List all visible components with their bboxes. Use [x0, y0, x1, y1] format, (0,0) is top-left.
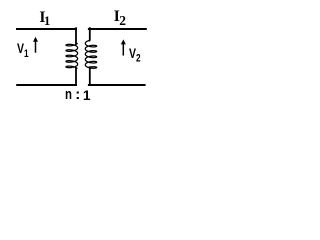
- label I2: [114, 9, 126, 27]
- wire left-loop bottom: [17, 84, 76, 86]
- wire right-loop left vertical top: [88, 28, 90, 40]
- inductor L1 (primary winding): [66, 44, 78, 69]
- wire right-loop bottom: [89, 84, 145, 86]
- wire right-loop top: [89, 28, 146, 30]
- wire right-loop left vertical bottom: [89, 67, 91, 85]
- arrow V1 polarity (up): [33, 37, 38, 52]
- wire left-loop right vertical top: [75, 28, 77, 43]
- label I1: [39, 10, 50, 27]
- label turns-ratio colon: [75, 87, 80, 102]
- label V1: [17, 41, 29, 60]
- label turns-ratio n: [65, 87, 72, 102]
- label V2: [129, 46, 141, 65]
- inductor L2 (secondary winding): [85, 40, 96, 68]
- label turns-ratio 1: [83, 89, 91, 103]
- wire left-loop right vertical bottom: [75, 68, 77, 85]
- arrow V2 polarity (up): [121, 39, 126, 54]
- wire left-loop top: [17, 28, 76, 30]
